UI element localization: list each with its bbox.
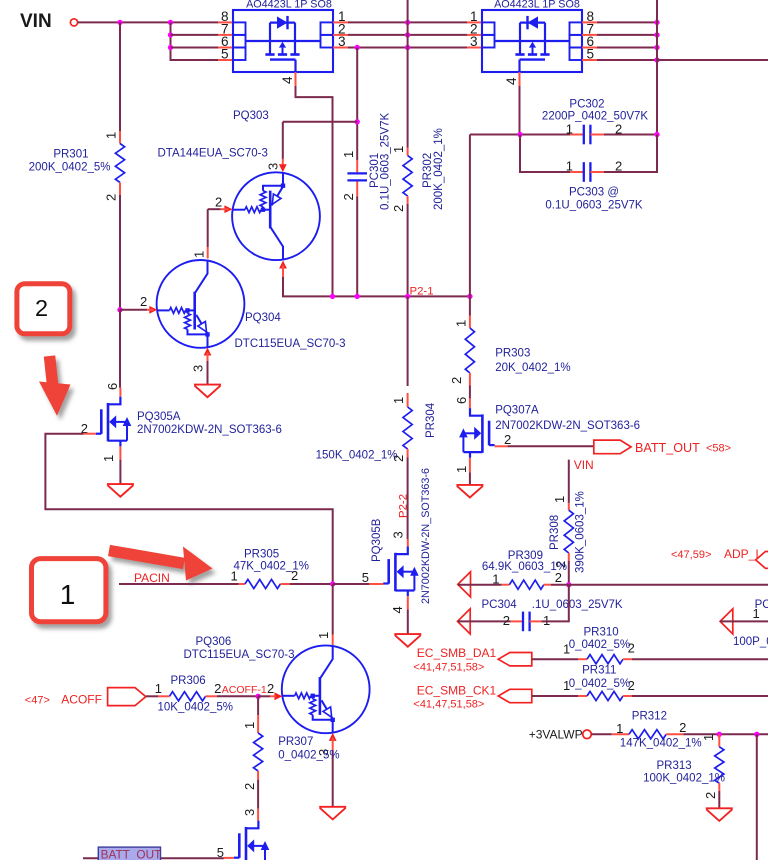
junction bbox=[255, 694, 260, 699]
wire bbox=[632, 695, 768, 697]
svg-text:PR308: PR308 bbox=[549, 515, 561, 550]
svg-text:PR310: PR310 bbox=[584, 627, 619, 639]
pin 2 bbox=[615, 159, 622, 174]
svg-text:PC303 @: PC303 @ bbox=[569, 187, 619, 199]
wire bbox=[532, 695, 578, 697]
net label P2-1 bbox=[410, 286, 434, 298]
junction bbox=[566, 582, 571, 587]
svg-text:PC302: PC302 bbox=[569, 99, 604, 111]
svg-text:PR306: PR306 bbox=[171, 675, 206, 687]
pin 1 bbox=[231, 569, 238, 584]
label DTC115EUA_SC70-3 bbox=[184, 649, 295, 661]
svg-text:PQ306: PQ306 bbox=[196, 636, 232, 648]
wire bbox=[356, 197, 358, 297]
label PC302 bbox=[569, 99, 604, 111]
svg-text:1: 1 bbox=[242, 722, 257, 729]
junction bbox=[330, 294, 335, 299]
wire bbox=[348, 47, 467, 49]
port BATT_OUT bbox=[594, 440, 631, 454]
net label VIN bbox=[574, 458, 594, 472]
pin stub bbox=[590, 134, 604, 136]
transistor PQ306 bbox=[282, 645, 370, 733]
pin 6 bbox=[105, 383, 120, 390]
svg-text:2: 2 bbox=[679, 720, 686, 735]
wire bbox=[407, 296, 409, 386]
resistor PR313 bbox=[715, 747, 724, 783]
svg-text:100K_0402_1%: 100K_0402_1% bbox=[643, 773, 725, 785]
svg-text:1: 1 bbox=[341, 151, 356, 158]
svg-text:+3VALWP: +3VALWP bbox=[529, 728, 583, 742]
svg-text:PQ304: PQ304 bbox=[245, 312, 281, 324]
svg-text:100P_0402_50V7K: 100P_0402_50V7K bbox=[733, 636, 768, 648]
wire bbox=[120, 309, 147, 311]
highlight BATT_OUT bbox=[98, 847, 161, 860]
net label VIN bbox=[20, 11, 52, 32]
wire bbox=[469, 296, 471, 315]
junction bbox=[405, 294, 410, 299]
pin stub bbox=[529, 620, 541, 622]
pin stub bbox=[257, 715, 259, 733]
wire bbox=[597, 47, 657, 49]
wire bbox=[119, 583, 239, 585]
svg-text:<47,59>: <47,59> bbox=[671, 549, 711, 561]
transistor PQ305A bbox=[96, 397, 132, 447]
junction bbox=[355, 119, 360, 124]
pin 2 bbox=[242, 783, 257, 790]
wire bbox=[469, 473, 471, 485]
pin stub bbox=[333, 21, 348, 23]
svg-text:200K_0402_5%: 200K_0402_5% bbox=[29, 162, 111, 174]
pin 1 bbox=[101, 455, 116, 462]
value 20K_0402_1% bbox=[495, 362, 570, 374]
transistor Q-bottom bbox=[234, 821, 269, 860]
pin 1 bbox=[492, 572, 499, 587]
svg-text:1: 1 bbox=[492, 572, 499, 587]
svg-text:ADP_I: ADP_I bbox=[724, 547, 759, 561]
label PQ305A bbox=[137, 411, 181, 423]
reference <58> bbox=[706, 443, 731, 455]
svg-text:<47>: <47> bbox=[25, 695, 50, 707]
svg-text:6: 6 bbox=[454, 397, 469, 404]
junction bbox=[717, 732, 722, 737]
net label PACIN bbox=[134, 571, 170, 585]
pin stub bbox=[158, 695, 170, 697]
wire bbox=[604, 135, 657, 173]
wire bbox=[217, 695, 258, 697]
svg-text:0.1U_0603_25V7K: 0.1U_0603_25V7K bbox=[380, 112, 392, 210]
pin 2 bbox=[291, 568, 298, 583]
transistor PQ305B bbox=[383, 547, 419, 597]
svg-text:0.1U_0603_25V7K: 0.1U_0603_25V7K bbox=[545, 200, 643, 212]
resistor PR303 bbox=[465, 328, 474, 373]
pin arrow bbox=[329, 733, 337, 741]
pin 2 bbox=[449, 377, 464, 384]
pin 3 bbox=[316, 749, 331, 756]
wire bbox=[356, 48, 358, 161]
wire bbox=[720, 620, 768, 622]
pin stub bbox=[570, 171, 584, 173]
svg-text:PR301: PR301 bbox=[53, 149, 88, 161]
pin stub bbox=[333, 34, 348, 36]
wire bbox=[119, 22, 121, 131]
pin stub bbox=[224, 857, 234, 859]
svg-text:<41,47,51,58>: <41,47,51,58> bbox=[413, 699, 484, 711]
label PR311 bbox=[582, 665, 616, 677]
svg-text:<58>: <58> bbox=[706, 443, 731, 455]
svg-text:EC_SMB_DA1: EC_SMB_DA1 bbox=[417, 646, 497, 660]
svg-text:4: 4 bbox=[390, 606, 405, 613]
pin 1 bbox=[341, 151, 356, 158]
pin 1 bbox=[552, 496, 567, 503]
pin 6 bbox=[221, 34, 229, 49]
wire bbox=[257, 780, 259, 809]
pin stub bbox=[467, 47, 482, 49]
resistor PR310 bbox=[587, 655, 623, 664]
wire bbox=[519, 86, 521, 135]
svg-text:P2-1: P2-1 bbox=[410, 286, 434, 298]
pin stub bbox=[218, 47, 233, 49]
value 0_0402_5% bbox=[278, 750, 339, 762]
pin 2 bbox=[341, 193, 356, 200]
label PR306 bbox=[171, 675, 206, 687]
svg-text:1: 1 bbox=[60, 579, 76, 610]
wire bbox=[258, 695, 270, 697]
value 150K_0402_1% bbox=[316, 450, 398, 462]
net label ACOFF-1 bbox=[222, 684, 267, 696]
transistor PQ307A bbox=[459, 408, 495, 458]
pin 2 bbox=[504, 432, 511, 447]
svg-text:2: 2 bbox=[267, 681, 274, 696]
pin 5 bbox=[587, 47, 595, 62]
pin 4 bbox=[390, 606, 405, 613]
label PQ307A bbox=[495, 405, 539, 417]
pin 2 bbox=[391, 455, 406, 462]
wire bbox=[45, 434, 332, 584]
annotation box 2 bbox=[17, 284, 70, 334]
svg-text:3: 3 bbox=[266, 163, 281, 170]
svg-text:1: 1 bbox=[192, 251, 207, 258]
net label P2-2 bbox=[398, 494, 410, 518]
svg-text:20K_0402_1%: 20K_0402_1% bbox=[495, 362, 570, 374]
svg-text:3: 3 bbox=[470, 34, 478, 49]
wire bbox=[290, 583, 333, 585]
resistor PR307 bbox=[254, 733, 263, 771]
pin 1 bbox=[192, 251, 207, 258]
wire bbox=[207, 361, 209, 385]
label PQ303 bbox=[233, 110, 269, 122]
pin 1 bbox=[391, 146, 406, 153]
resistor PR309 bbox=[509, 580, 543, 589]
pin stub bbox=[218, 21, 233, 23]
port EC_SMB_CK1 bbox=[498, 689, 532, 702]
wire bbox=[469, 386, 471, 399]
svg-text:PQ307A: PQ307A bbox=[495, 405, 539, 417]
label PR307 bbox=[278, 736, 313, 748]
pin stub bbox=[356, 182, 358, 197]
pin 3 bbox=[338, 34, 346, 49]
svg-text:1: 1 bbox=[101, 455, 116, 462]
svg-text:200K_0402_1%: 200K_0402_1% bbox=[433, 128, 445, 210]
pin 2 bbox=[679, 720, 686, 735]
resistor PR304 bbox=[403, 407, 412, 449]
annotation arrow 2 bbox=[39, 356, 71, 416]
svg-text:2200P_0402_50V7K: 2200P_0402_50V7K bbox=[542, 110, 648, 122]
value 10K_0402_5% bbox=[158, 702, 233, 714]
pin stub bbox=[718, 783, 720, 791]
label AO4423L 1P SO8 bbox=[494, 0, 580, 11]
capacitor PC302 bbox=[584, 125, 591, 145]
wire bbox=[520, 135, 570, 173]
pin 2 bbox=[615, 122, 622, 137]
wire bbox=[332, 584, 334, 635]
label DTC115EUA_SC70-3 bbox=[235, 338, 346, 350]
wire bbox=[683, 733, 768, 735]
wire bbox=[632, 658, 768, 660]
pin stub bbox=[582, 59, 597, 61]
wire bbox=[208, 208, 221, 210]
svg-text:<41,47,51,58>: <41,47,51,58> bbox=[413, 662, 484, 674]
value 200K_0402_5% bbox=[29, 162, 111, 174]
pin 5 bbox=[221, 47, 229, 62]
pin 1 bbox=[454, 320, 469, 327]
junction bbox=[405, 45, 410, 50]
net label +3VALWP bbox=[529, 728, 583, 742]
capacitor PC303 bbox=[584, 162, 591, 182]
wire bbox=[551, 584, 768, 586]
junction bbox=[117, 307, 122, 312]
resistor PR311 bbox=[587, 691, 623, 700]
pin stub bbox=[280, 583, 289, 585]
value 2N7002KDW-2N_SOT363-6 bbox=[420, 468, 432, 604]
pin stub bbox=[407, 449, 409, 458]
value 200K_0402_1% bbox=[433, 128, 445, 210]
pin 1 bbox=[470, 9, 478, 24]
wire bbox=[604, 134, 657, 136]
svg-text:PR305: PR305 bbox=[244, 549, 279, 561]
pin 1 bbox=[316, 632, 331, 639]
transistor PQ304 bbox=[157, 260, 245, 348]
pin 2 bbox=[703, 792, 718, 799]
wire bbox=[83, 857, 224, 859]
label PR308 bbox=[549, 515, 561, 550]
wire bbox=[119, 310, 121, 388]
value 0_0402_5% bbox=[569, 639, 630, 651]
pin 3 bbox=[266, 163, 281, 170]
pin stub bbox=[206, 695, 217, 697]
wire bbox=[541, 585, 568, 622]
pin 3 bbox=[391, 531, 406, 538]
label PR302 bbox=[422, 153, 434, 188]
pin stub bbox=[218, 59, 233, 61]
svg-text:2: 2 bbox=[503, 613, 510, 628]
port EC_SMB_DA1 bbox=[498, 653, 532, 666]
wire bbox=[458, 584, 502, 586]
svg-text:1: 1 bbox=[753, 606, 760, 621]
wire bbox=[119, 460, 121, 485]
svg-text:2: 2 bbox=[215, 195, 222, 210]
pin 2 bbox=[140, 294, 147, 309]
terminal VIN bbox=[70, 19, 77, 26]
svg-text:2: 2 bbox=[391, 455, 406, 462]
pin stub bbox=[578, 695, 587, 697]
svg-text:PR309: PR309 bbox=[508, 550, 543, 562]
wire bbox=[597, 59, 657, 61]
svg-text:DTC115EUA_SC70-3: DTC115EUA_SC70-3 bbox=[235, 338, 346, 350]
terminal +3VALWP bbox=[583, 730, 592, 739]
junction bbox=[355, 294, 360, 299]
label PQ305B bbox=[371, 518, 383, 562]
svg-text:2: 2 bbox=[242, 783, 257, 790]
port input bbox=[458, 609, 471, 634]
pin stub bbox=[257, 809, 259, 821]
pin 1 bbox=[155, 681, 162, 696]
svg-text:4: 4 bbox=[280, 76, 295, 84]
junction bbox=[330, 581, 335, 586]
wire bbox=[171, 22, 219, 60]
pin stub bbox=[582, 34, 597, 36]
mosfet package U-left AO4423L 1P SO8 bbox=[233, 10, 333, 72]
port ADP_I bbox=[756, 552, 768, 569]
pin stub bbox=[467, 21, 482, 23]
net label BATT_OUT bbox=[635, 441, 700, 455]
label PR309 bbox=[508, 550, 543, 562]
pin 1 bbox=[391, 397, 406, 404]
pin stub bbox=[207, 247, 209, 259]
pin stub bbox=[469, 373, 471, 386]
pin 2 bbox=[214, 681, 221, 696]
pin 8 bbox=[221, 9, 229, 24]
svg-text:PQ305A: PQ305A bbox=[137, 411, 181, 423]
pin stub bbox=[147, 309, 154, 311]
net label EC_SMB_DA1 bbox=[417, 646, 497, 660]
pin 1 bbox=[616, 721, 623, 736]
svg-text:2N7002KDW-2N_SOT363-6: 2N7002KDW-2N_SOT363-6 bbox=[420, 468, 432, 604]
svg-text:390K_0603_1%: 390K_0603_1% bbox=[575, 491, 587, 573]
net label ADP_I bbox=[724, 547, 759, 561]
pin 2 bbox=[555, 570, 562, 585]
reference <41,47,51,58> bbox=[413, 662, 484, 674]
label PC304 bbox=[482, 599, 518, 611]
svg-text:2N7002KDW-2N_SOT363-6: 2N7002KDW-2N_SOT363-6 bbox=[495, 420, 640, 432]
svg-text:PACIN: PACIN bbox=[134, 571, 170, 585]
label PC303 @ bbox=[569, 187, 619, 199]
svg-text:0_0402_5%: 0_0402_5% bbox=[569, 678, 630, 690]
svg-text:4: 4 bbox=[504, 77, 519, 85]
value 64.9K_0603_1% bbox=[482, 561, 567, 573]
wire bbox=[469, 135, 471, 297]
svg-text:1: 1 bbox=[391, 146, 406, 153]
wire bbox=[333, 583, 370, 585]
pin 3 bbox=[242, 809, 257, 816]
junction bbox=[405, 32, 410, 37]
svg-text:6: 6 bbox=[105, 383, 120, 390]
wire bbox=[508, 445, 594, 447]
label PR305 bbox=[244, 549, 279, 561]
svg-text:BATT_OUT: BATT_OUT bbox=[101, 848, 162, 860]
pin stub bbox=[407, 196, 409, 204]
pin 2 bbox=[338, 21, 346, 36]
pin 4 bbox=[280, 76, 295, 84]
pin stub bbox=[257, 771, 259, 780]
value 0.1U_0603_25V7K bbox=[545, 200, 643, 212]
pin 2 bbox=[391, 205, 406, 212]
pin stub bbox=[407, 148, 409, 156]
pin stub bbox=[568, 503, 570, 510]
svg-text:2: 2 bbox=[628, 678, 635, 693]
wire bbox=[470, 134, 570, 136]
resistor PR305 bbox=[245, 579, 281, 588]
junction bbox=[654, 20, 659, 25]
wire bbox=[407, 204, 409, 296]
svg-text:2: 2 bbox=[391, 205, 406, 212]
pin arrow bbox=[274, 692, 282, 700]
pin arrow bbox=[279, 261, 287, 269]
svg-text:1: 1 bbox=[231, 569, 238, 584]
pin stub bbox=[623, 695, 632, 697]
svg-text:PQ303: PQ303 bbox=[233, 110, 269, 122]
label PR312 bbox=[632, 711, 667, 723]
pin 1 bbox=[563, 641, 570, 656]
svg-text:PR303: PR303 bbox=[495, 348, 530, 360]
svg-text:2: 2 bbox=[104, 194, 119, 201]
svg-text:VIN: VIN bbox=[20, 11, 52, 32]
wire bbox=[568, 460, 570, 503]
value 100K_0402_1% bbox=[643, 773, 725, 785]
svg-text:2: 2 bbox=[214, 681, 221, 696]
svg-text:2: 2 bbox=[628, 641, 635, 656]
pin stub bbox=[623, 658, 632, 660]
capacitor PC304 bbox=[523, 612, 530, 632]
wire bbox=[283, 277, 470, 296]
junction bbox=[467, 294, 472, 299]
value 0.1U_0603_25V7K bbox=[380, 112, 392, 210]
pin arrow bbox=[279, 164, 287, 172]
junction bbox=[405, 20, 410, 25]
value 47K_0402_1% bbox=[234, 561, 309, 573]
pin 2 bbox=[81, 421, 88, 436]
wire bbox=[257, 696, 259, 715]
wire bbox=[146, 695, 158, 697]
value .1U_0603_25V7K bbox=[532, 599, 623, 611]
svg-text:5: 5 bbox=[362, 570, 369, 585]
wire bbox=[657, 59, 768, 61]
pin 1 bbox=[566, 159, 573, 174]
svg-text:2: 2 bbox=[449, 377, 464, 384]
pin 3 bbox=[470, 34, 478, 49]
transistor PQ303 bbox=[232, 172, 320, 260]
wire bbox=[119, 195, 121, 310]
pin 2 bbox=[503, 613, 510, 628]
svg-text:3: 3 bbox=[242, 809, 257, 816]
svg-text:150K_0402_1%: 150K_0402_1% bbox=[316, 450, 398, 462]
wire bbox=[656, 0, 658, 172]
ground bbox=[394, 634, 421, 647]
pin 1 bbox=[563, 678, 570, 693]
pin 6 bbox=[454, 397, 469, 404]
pin stub bbox=[511, 620, 524, 622]
svg-text:1: 1 bbox=[552, 496, 567, 503]
pin 8 bbox=[587, 9, 595, 24]
svg-text:ACOFF-1: ACOFF-1 bbox=[222, 684, 267, 696]
label PR304 bbox=[425, 402, 437, 438]
pin 1 bbox=[242, 722, 257, 729]
pin stub bbox=[207, 353, 209, 362]
svg-text:P2-2: P2-2 bbox=[398, 494, 410, 518]
pin 1 bbox=[566, 122, 573, 137]
net label ACOFF bbox=[61, 693, 102, 707]
pin 1 bbox=[701, 734, 716, 741]
pin stub bbox=[612, 733, 629, 735]
